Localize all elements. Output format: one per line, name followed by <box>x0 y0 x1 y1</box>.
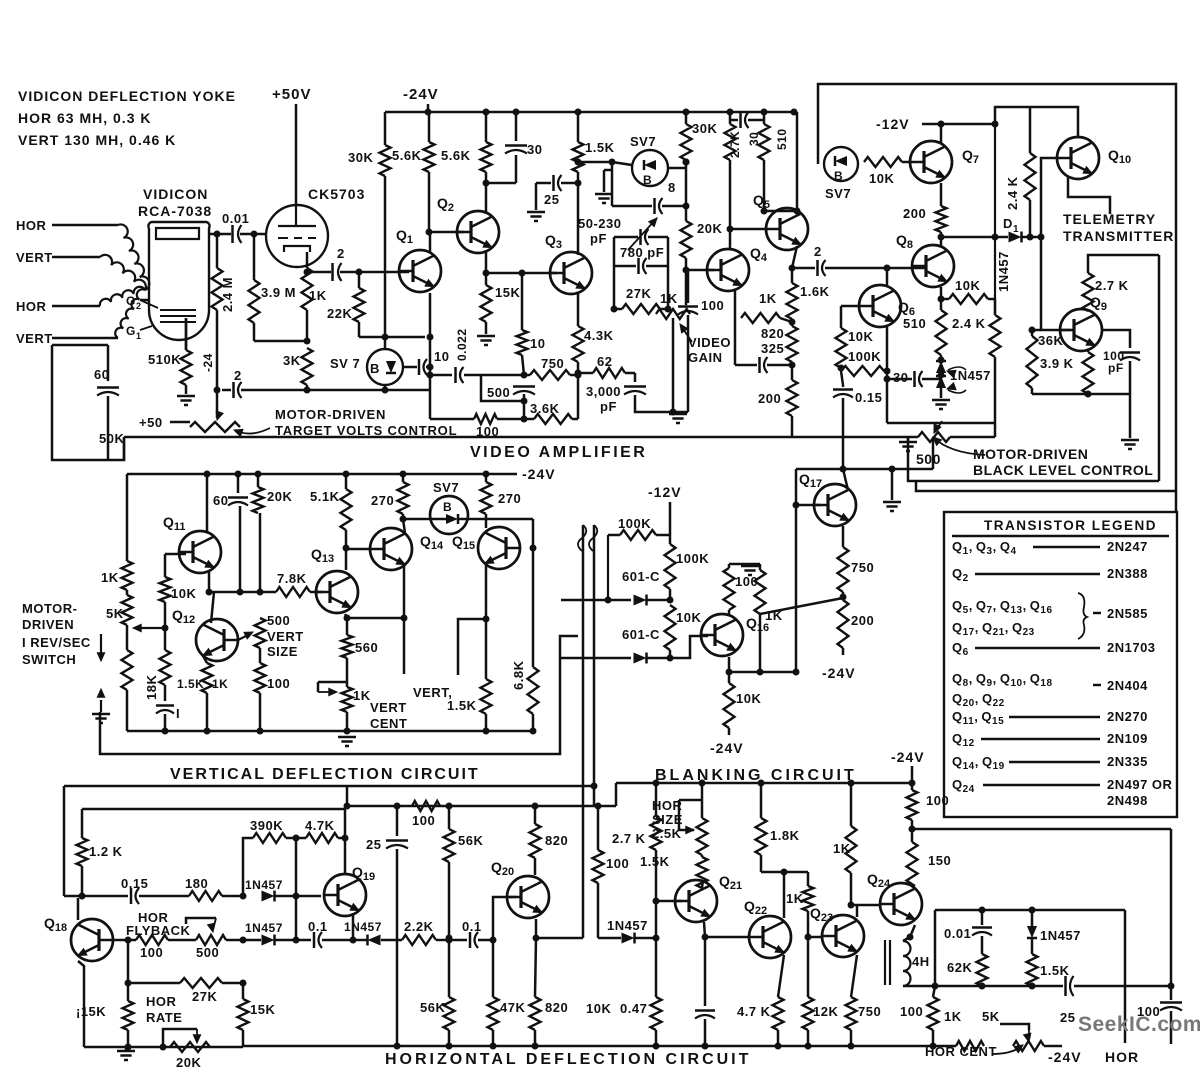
svg-text:750: 750 <box>858 1004 881 1019</box>
svg-text:27K: 27K <box>192 989 217 1004</box>
top border line right <box>616 782 912 785</box>
200 Q17 <box>838 600 849 648</box>
5.6K resistor 2 <box>485 112 488 142</box>
svg-text:56K: 56K <box>458 833 483 848</box>
Q7 collector to -12V <box>940 124 943 144</box>
cap 25 + ground <box>561 182 578 185</box>
180 resistor <box>189 891 222 901</box>
yoke to vidicon frame wires <box>52 345 124 460</box>
1K vert cent pot <box>346 658 349 687</box>
svg-text:DRIVEN: DRIVEN <box>22 617 74 632</box>
svg-text:20K: 20K <box>267 489 292 504</box>
1.6K resistor <box>791 268 794 283</box>
svg-text:MOTOR-DRIVEN: MOTOR-DRIVEN <box>275 407 386 422</box>
svg-text:-24V: -24V <box>822 665 856 681</box>
left border down <box>123 437 126 461</box>
svg-text:500: 500 <box>916 451 941 467</box>
56K resistor a <box>448 806 451 829</box>
ground below 510K <box>185 385 188 394</box>
27K resistor <box>127 940 130 983</box>
video amp ground line <box>124 436 908 439</box>
100 resistor top <box>412 801 440 811</box>
svg-text:HOR: HOR <box>16 218 47 233</box>
svg-text:750: 750 <box>851 560 874 575</box>
svg-text:0.47: 0.47 <box>620 1001 647 1016</box>
svg-text:3.6K: 3.6K <box>530 401 560 416</box>
svg-text:1K: 1K <box>309 288 327 303</box>
svg-text:100: 100 <box>701 298 724 313</box>
svg-text:I REV/SEC: I REV/SEC <box>22 635 91 650</box>
svg-text:325: 325 <box>761 341 784 356</box>
270 resistor 1 <box>402 474 405 482</box>
svg-text:0.022: 0.022 <box>455 328 469 361</box>
svg-text:pF: pF <box>1108 361 1124 375</box>
510K resistor <box>185 345 188 350</box>
x64 left col <box>63 786 66 896</box>
510 resistor <box>763 112 766 124</box>
500 pot flyback <box>196 935 226 945</box>
svg-text:2N497 OR: 2N497 OR <box>1107 777 1173 792</box>
svg-text:10K: 10K <box>676 610 701 625</box>
100 resistor flyback <box>136 935 168 945</box>
svg-text:2.4 K: 2.4 K <box>952 316 986 331</box>
svg-text:-24V: -24V <box>710 740 744 756</box>
svg-text:3.9 K: 3.9 K <box>1040 356 1074 371</box>
svg-text:1K: 1K <box>101 570 119 585</box>
12K resistor <box>803 997 814 1030</box>
svg-text:1K: 1K <box>833 841 851 856</box>
svg-text:SV 7: SV 7 <box>330 356 360 371</box>
svg-text:CK5703: CK5703 <box>308 186 365 202</box>
svg-text:15K: 15K <box>250 1002 275 1017</box>
750 resistor <box>530 370 570 380</box>
15K emitter resistor <box>123 1001 134 1030</box>
transistor legend box <box>944 512 1177 817</box>
svg-text:HOR: HOR <box>1105 1049 1139 1065</box>
svg-text:0.1: 0.1 <box>308 919 328 934</box>
ground bottom left <box>117 1050 135 1053</box>
Q16 emitter node <box>728 657 731 672</box>
36K resistor <box>1032 329 1041 332</box>
blanking to video amp riser <box>932 437 935 469</box>
svg-text:4.3K: 4.3K <box>584 328 614 343</box>
svg-text:1K: 1K <box>660 291 678 306</box>
video amp bottom border right <box>908 437 1159 481</box>
47K resistor <box>488 997 499 1030</box>
wire y469 <box>796 468 933 471</box>
svg-text:560: 560 <box>355 640 378 655</box>
svg-text:10K: 10K <box>869 171 894 186</box>
loop wire x481 <box>481 375 513 401</box>
Q24 base wire <box>851 904 881 907</box>
svg-text:200: 200 <box>758 391 781 406</box>
Q5 collector <box>763 160 766 211</box>
ground Q8 <box>932 399 950 402</box>
2.7K resistor Q9 <box>1088 255 1159 273</box>
svg-text:0.01: 0.01 <box>944 926 971 941</box>
svg-text:2.7 K: 2.7 K <box>1095 278 1129 293</box>
diode 1N457 a <box>240 937 247 944</box>
svg-text:RATE: RATE <box>146 1010 182 1025</box>
svg-text:HOR: HOR <box>16 299 47 314</box>
svg-text:VIDEO: VIDEO <box>688 335 731 350</box>
Q11 base col 10K <box>165 553 186 556</box>
Q22 emitter 4.7K <box>778 955 784 997</box>
3.9K resistor <box>1087 349 1090 352</box>
270 resistor 2 <box>485 474 488 482</box>
top wire hor defl y806 <box>347 805 616 808</box>
svg-text:510: 510 <box>903 316 926 331</box>
svg-text:10K: 10K <box>955 278 980 293</box>
svg-text:FLYBACK: FLYBACK <box>126 923 191 938</box>
svg-text:1N457: 1N457 <box>607 918 648 933</box>
Q23 base wire <box>808 936 822 939</box>
Q18 base wire right <box>113 939 136 942</box>
18K resistor <box>122 650 133 690</box>
bottom wire vert <box>127 730 533 733</box>
svg-text:2: 2 <box>234 368 242 383</box>
svg-text:TRANSMITTER: TRANSMITTER <box>1063 228 1174 244</box>
Q2 collector/emitter wires <box>485 211 488 214</box>
svg-text:G: G <box>126 294 136 308</box>
svg-text:1N457: 1N457 <box>344 920 382 934</box>
Q9 emitter bottom wire <box>1032 393 1130 396</box>
svg-text:-24V: -24V <box>1048 1049 1082 1065</box>
1.2K resistor <box>81 809 84 838</box>
Q2 emitter ground <box>485 330 488 334</box>
7.8K resistor to Q13 <box>276 587 310 597</box>
svg-text:VIDEO AMPLIFIER: VIDEO AMPLIFIER <box>470 444 647 461</box>
svg-text:20K: 20K <box>697 221 722 236</box>
Q8 base wire <box>887 267 926 270</box>
svg-text:1: 1 <box>136 331 142 341</box>
svg-text:1.2 K: 1.2 K <box>89 844 123 859</box>
820 resistor b <box>530 997 541 1030</box>
svg-text:2N247: 2N247 <box>1107 539 1148 554</box>
svg-text:B: B <box>443 500 452 514</box>
500 cap <box>513 385 535 388</box>
svg-text:HOR: HOR <box>146 994 177 1009</box>
svg-text:CENT: CENT <box>370 716 407 731</box>
svg-text:100: 100 <box>926 793 949 808</box>
svg-text:SIZE: SIZE <box>267 644 298 659</box>
Q18 collector <box>77 898 80 920</box>
15K resistor right <box>238 999 249 1030</box>
svg-text:0.01: 0.01 <box>222 211 249 226</box>
svg-text:2N388: 2N388 <box>1107 566 1148 581</box>
100 resistor -24V <box>911 766 914 783</box>
svg-text:2.5K: 2.5K <box>652 826 682 841</box>
Q5 emitter + cap 2 <box>792 246 797 268</box>
svg-text:5.6K: 5.6K <box>392 148 422 163</box>
62K resistor <box>977 954 988 986</box>
svg-text:100: 100 <box>900 1004 923 1019</box>
svg-text:10K: 10K <box>736 691 761 706</box>
svg-text:200: 200 <box>851 613 874 628</box>
svg-text:VERTICAL DEFLECTION CIRCUIT: VERTICAL DEFLECTION CIRCUIT <box>170 766 480 783</box>
1.5K resistor out <box>1027 954 1038 986</box>
100K resistor h <box>620 530 656 540</box>
Q19 collector <box>344 809 347 838</box>
56K resistor b <box>444 997 455 1030</box>
svg-text:BLANKING CIRCUIT: BLANKING CIRCUIT <box>655 767 857 784</box>
ground under SV7 <box>604 169 612 172</box>
Q8 emitter- wires 908 -> blanking <box>916 481 1176 491</box>
svg-text:VERT: VERT <box>16 250 53 265</box>
svg-text:270: 270 <box>498 491 521 506</box>
svg-text:HOR CENT: HOR CENT <box>925 1044 997 1059</box>
svg-text:1N457: 1N457 <box>996 251 1011 292</box>
1N457 diode pair <box>938 357 945 364</box>
svg-text:SV7: SV7 <box>630 134 656 149</box>
svg-text:2.7K: 2.7K <box>728 131 742 158</box>
Q3 collector col 1.5K <box>577 112 580 142</box>
svg-text:820: 820 <box>545 833 568 848</box>
Q23 emitter 750 <box>851 955 857 997</box>
Q4 emitter 1K resistor <box>734 291 737 318</box>
Q17 base col <box>795 469 798 672</box>
output rail riser <box>934 910 937 986</box>
VERT output stub <box>458 619 486 675</box>
svg-text:5K: 5K <box>106 606 124 621</box>
svg-text:1.5K: 1.5K <box>177 677 204 691</box>
svg-text:BLACK LEVEL CONTROL: BLACK LEVEL CONTROL <box>973 462 1153 478</box>
150 resistor <box>907 842 918 884</box>
cathode 1K resistor <box>306 252 309 268</box>
svg-text:180: 180 <box>185 876 208 891</box>
svg-text:1N457: 1N457 <box>245 921 283 935</box>
svg-text:2: 2 <box>136 301 142 311</box>
Q13 emitter 560 <box>345 614 347 618</box>
vidicon ground <box>185 318 188 345</box>
svg-text:100K: 100K <box>848 349 881 364</box>
svg-text:VERT: VERT <box>267 629 304 644</box>
cap 30b <box>730 119 738 122</box>
500 pot black level <box>886 379 889 423</box>
6.8K resistor <box>528 667 539 714</box>
wire 1K to 750 node <box>760 598 843 614</box>
Q22 collector riser <box>783 872 786 918</box>
100 resistor mid <box>597 806 600 850</box>
svg-text:820: 820 <box>761 326 784 341</box>
svg-text:30: 30 <box>893 370 908 385</box>
x128 col down <box>125 980 132 987</box>
svg-text:I: I <box>176 706 180 721</box>
svg-text:2N1703: 2N1703 <box>1107 640 1156 655</box>
svg-text:200: 200 <box>903 206 926 221</box>
svg-text:1.5K: 1.5K <box>585 140 615 155</box>
Q8 emitter 10K h <box>940 287 943 299</box>
svg-text:56K: 56K <box>420 1000 445 1015</box>
svg-text:10K: 10K <box>171 586 196 601</box>
svg-text:B: B <box>370 361 380 376</box>
svg-text:TELEMETRY: TELEMETRY <box>1063 211 1156 227</box>
vert section bottom border <box>100 636 578 754</box>
long vertical x594 <box>593 525 596 806</box>
cap 325 <box>734 318 737 365</box>
Q6 emitter down <box>886 327 889 379</box>
4.3K column lower <box>577 362 580 419</box>
svg-text:7.8K: 7.8K <box>277 571 307 586</box>
svg-text:2N109: 2N109 <box>1107 731 1148 746</box>
Q15 base node wire <box>532 519 535 667</box>
3K resistor <box>254 340 307 343</box>
diode 1N457 b <box>262 891 275 902</box>
svg-text:2N270: 2N270 <box>1107 709 1148 724</box>
1K Q16 <box>729 563 760 566</box>
svg-text:10: 10 <box>530 336 545 351</box>
820/325 <box>787 326 798 362</box>
wire Q1 emitter down <box>429 293 432 390</box>
svg-text:30: 30 <box>527 142 542 157</box>
20K pot <box>170 1042 210 1052</box>
svg-text:100K: 100K <box>676 551 709 566</box>
1K resistor q22 <box>807 872 810 886</box>
svg-text:MOTOR-DRIVEN: MOTOR-DRIVEN <box>973 446 1088 462</box>
svg-text:1N457: 1N457 <box>245 878 283 892</box>
svg-text:50K: 50K <box>99 431 124 446</box>
bottom wire left <box>84 1046 243 1049</box>
svg-text:3K: 3K <box>283 353 301 368</box>
svg-text:150: 150 <box>928 853 951 868</box>
svg-text:-24V: -24V <box>403 86 439 103</box>
svg-text:18K: 18K <box>144 675 159 700</box>
svg-text:390K: 390K <box>250 818 283 833</box>
svg-text:601-C: 601-C <box>622 569 660 584</box>
Q11 collector <box>206 474 209 533</box>
100 resistor row <box>474 414 497 424</box>
svg-text:60: 60 <box>213 493 228 508</box>
Q6 base 10K <box>841 305 859 308</box>
svg-text:0.15: 0.15 <box>121 876 148 891</box>
svg-text:2: 2 <box>814 244 822 259</box>
Q23 collector <box>856 905 859 917</box>
svg-text:22K: 22K <box>327 306 352 321</box>
svg-text:1K: 1K <box>759 291 777 306</box>
transformer bottom wire <box>903 985 935 988</box>
svg-text:RCA-7038: RCA-7038 <box>138 203 212 219</box>
Q14 base wire <box>346 548 370 551</box>
svg-text:2.2K: 2.2K <box>404 919 434 934</box>
svg-text:1K: 1K <box>944 1009 962 1024</box>
svg-text:4H: 4H <box>912 954 930 969</box>
svg-text:2: 2 <box>337 246 345 261</box>
Q20 base wire <box>493 897 516 940</box>
svg-text:2N498: 2N498 <box>1107 793 1148 808</box>
svg-text:1N457: 1N457 <box>1040 928 1081 943</box>
Q20 emitter <box>535 919 538 938</box>
svg-text:2N585: 2N585 <box>1107 606 1148 621</box>
Q12 emitter 1K <box>203 656 207 663</box>
svg-text:25: 25 <box>1060 1010 1075 1025</box>
svg-text:1K: 1K <box>786 891 804 906</box>
cap 1 <box>156 704 174 707</box>
svg-text:2.7 K: 2.7 K <box>612 831 646 846</box>
telemetry transmitter <box>1068 176 1110 214</box>
svg-text:1.8K: 1.8K <box>770 828 800 843</box>
10K resistor bottom <box>651 997 662 1030</box>
svg-text:1.5K: 1.5K <box>640 854 670 869</box>
30K mid resistor (20K) <box>685 112 688 124</box>
2.4M resistor <box>216 234 219 268</box>
Q6 collector <box>886 268 889 285</box>
bottom wire hor <box>242 1046 245 1047</box>
svg-text:820: 820 <box>545 1000 568 1015</box>
svg-text:3,000: 3,000 <box>586 384 621 399</box>
2.7K resistor <box>655 783 658 817</box>
svg-text:B: B <box>643 173 652 187</box>
62 resistor <box>578 372 593 375</box>
rail y986 <box>935 985 1060 988</box>
svg-text:-12V: -12V <box>876 116 910 132</box>
svg-text:2N404: 2N404 <box>1107 678 1148 693</box>
500 VERT SIZE pot <box>255 618 266 648</box>
820 resistor a <box>534 806 537 824</box>
svg-text:¡15K: ¡15K <box>76 1004 106 1019</box>
svg-text:2N335: 2N335 <box>1107 754 1148 769</box>
1.8K resistor <box>760 783 763 818</box>
svg-text:pF: pF <box>600 399 617 414</box>
svg-text:10: 10 <box>434 349 449 364</box>
Q3 emitter 4.3K <box>577 293 580 326</box>
x583 riser <box>536 937 583 940</box>
left column 1K <box>126 474 129 561</box>
svg-text:-24: -24 <box>201 353 215 372</box>
svg-text:100: 100 <box>267 676 290 691</box>
svg-text:15K: 15K <box>495 285 520 300</box>
svg-text:D: D <box>1003 216 1013 231</box>
svg-text:510: 510 <box>775 128 789 150</box>
svg-text:VERT: VERT <box>16 331 53 346</box>
svg-text:500: 500 <box>196 945 219 960</box>
svg-text:1.6K: 1.6K <box>800 284 830 299</box>
wire y592 <box>209 591 276 594</box>
svg-text:-24V: -24V <box>891 749 925 765</box>
Q11 emitter to y592 wire <box>208 571 211 592</box>
Q21 emitter to Q22 base <box>704 922 705 937</box>
svg-text:HOR 63 MH, 0.3 K: HOR 63 MH, 0.3 K <box>18 110 151 126</box>
ground 1K pot <box>338 736 356 739</box>
Q17 collector <box>843 469 848 490</box>
svg-text:5.1K: 5.1K <box>310 489 340 504</box>
5.6K resistor 1 <box>428 112 431 142</box>
svg-text:36K: 36K <box>1038 333 1063 348</box>
x1159 vertical <box>1158 255 1161 481</box>
wire +50V to tube <box>295 104 298 206</box>
svg-text:30K: 30K <box>692 121 717 136</box>
510 resistor Q8 <box>936 310 947 355</box>
svg-text:-12V: -12V <box>648 484 682 500</box>
svg-text:27K: 27K <box>626 286 651 301</box>
svg-text:pF: pF <box>590 231 607 246</box>
svg-text:VERT 130 MH, 0.46 K: VERT 130 MH, 0.46 K <box>18 132 176 148</box>
svg-text:SV7: SV7 <box>825 186 851 201</box>
svg-text:1K: 1K <box>353 688 371 703</box>
Q17 emitter 750 <box>842 526 845 547</box>
svg-text:100K: 100K <box>618 516 651 531</box>
svg-text:SWITCH: SWITCH <box>22 652 76 667</box>
Q4 collector to Q5 base col <box>729 112 732 124</box>
100 resistor <box>259 648 262 663</box>
svg-text:30K: 30K <box>348 150 373 165</box>
svg-text:780 pF: 780 pF <box>620 245 664 260</box>
30K resistor col <box>384 112 387 145</box>
svg-text:2.4 M: 2.4 M <box>220 277 235 312</box>
svg-text:5.6K: 5.6K <box>441 148 471 163</box>
svg-text:8: 8 <box>668 180 676 195</box>
svg-text:VIDICON DEFLECTION YOKE: VIDICON DEFLECTION YOKE <box>18 88 236 104</box>
20K resistor <box>681 221 692 258</box>
